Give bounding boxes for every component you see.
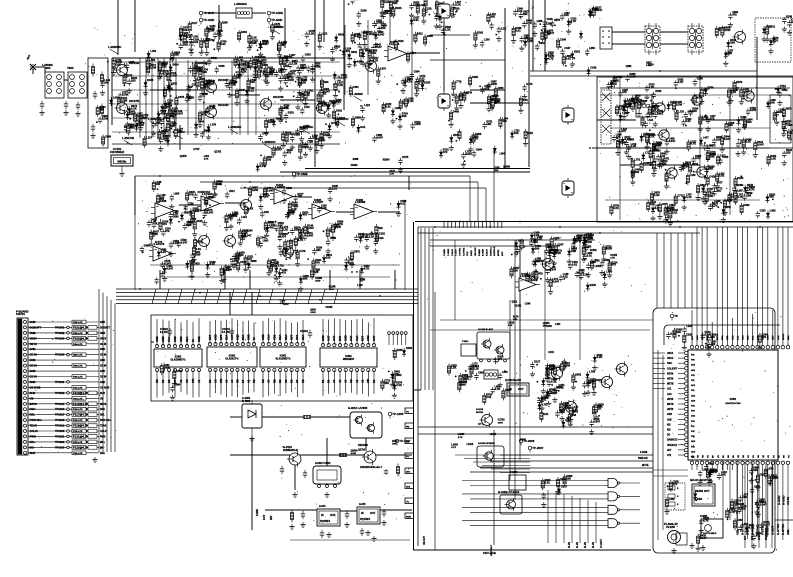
svg-text:2.2K: 2.2K xyxy=(183,43,189,47)
svg-text:PL/099-4P: PL/099-4P xyxy=(664,522,678,526)
transistor Q411 xyxy=(690,93,702,107)
svg-text:MUTE: MUTE xyxy=(783,333,785,340)
svg-text:C102: C102 xyxy=(379,232,386,235)
svg-text:VREV: VREV xyxy=(100,338,107,340)
jack J403 xyxy=(562,178,574,198)
svg-text:CLK: CLK xyxy=(267,335,271,340)
wire long vertical tile2 xyxy=(314,0,316,167)
wire inner left vertical2 xyxy=(662,355,664,530)
svg-text:0.01: 0.01 xyxy=(660,154,666,158)
wire connector bus 2 xyxy=(102,293,104,452)
svg-text:L731: L731 xyxy=(635,159,641,162)
svg-text:2.2K: 2.2K xyxy=(396,383,402,387)
svg-text:TP1302: TP1302 xyxy=(55,331,65,335)
connector row PWR pin 22 xyxy=(28,434,106,438)
svg-text:H-GND: H-GND xyxy=(782,496,786,505)
IC501 microcontroller xyxy=(688,350,778,460)
connector row GND pin 6 xyxy=(28,347,105,351)
RC cluster M6 xyxy=(547,236,613,295)
svg-text:D319: D319 xyxy=(336,110,343,113)
RC cluster D6 xyxy=(279,104,326,153)
wire drop to IC box 5 xyxy=(684,233,686,308)
svg-text:0.01: 0.01 xyxy=(385,104,391,108)
label CRT-PCB xyxy=(483,551,496,555)
RC cluster topE2 xyxy=(480,8,529,48)
svg-text:HSTB: HSTB xyxy=(667,409,674,411)
wire xyxy=(408,176,410,190)
connector row CE IN pin 7 xyxy=(28,353,106,357)
connector row BRTS pin 16 xyxy=(28,402,107,406)
RC cluster top B xyxy=(300,30,352,73)
component box X501 xyxy=(700,516,723,538)
connector row UB pin 15 xyxy=(28,396,104,400)
capacitor C962 xyxy=(345,511,349,519)
wire AFT xyxy=(470,471,653,473)
svg-text:SDA: SDA xyxy=(284,334,288,340)
wire net M ext 0 xyxy=(455,454,530,456)
wire xyxy=(229,292,231,315)
RC cluster H10 xyxy=(632,99,682,150)
svg-text:GND: GND xyxy=(179,336,183,342)
wire xyxy=(367,20,369,95)
svg-text:TP1318: TP1318 xyxy=(55,418,65,422)
svg-text:WR: WR xyxy=(219,379,223,383)
wire xyxy=(179,204,201,206)
ground xyxy=(700,545,705,551)
svg-text:LA2176: LA2176 xyxy=(154,242,165,246)
RC cluster extra I2b xyxy=(205,180,274,208)
svg-text:TP1315: TP1315 xyxy=(55,402,65,406)
svg-text:REL: REL xyxy=(100,415,105,417)
svg-text:R155: R155 xyxy=(397,349,404,352)
svg-text:0.01: 0.01 xyxy=(193,40,199,44)
wire inner trunk M6 xyxy=(430,329,650,331)
svg-text:CE SH/B: CE SH/B xyxy=(30,385,41,389)
svg-text:ABL: ABL xyxy=(786,529,790,535)
svg-text:0.1 25V: 0.1 25V xyxy=(160,332,168,334)
svg-text:TP-CMB: TP-CMB xyxy=(296,172,307,176)
svg-text:CS: CS xyxy=(284,379,288,383)
wire stage2 vertical 3 xyxy=(231,60,233,135)
RC cluster I4 xyxy=(299,221,344,254)
svg-text:CE IN: CE IN xyxy=(30,375,37,379)
svg-text:10K: 10K xyxy=(709,194,714,198)
svg-text:2.2K: 2.2K xyxy=(527,131,533,135)
op-amp IC203 xyxy=(270,183,297,204)
svg-text:RD: RD xyxy=(155,379,159,383)
svg-text:0.01: 0.01 xyxy=(209,81,215,85)
capacitor C010 xyxy=(91,124,95,132)
IC IC903 xyxy=(154,345,202,372)
svg-text:RD: RD xyxy=(252,379,256,383)
wire xyxy=(375,454,412,456)
wire xyxy=(323,0,325,42)
connector row VMB pin 3 xyxy=(28,331,105,335)
svg-text:TP1321: TP1321 xyxy=(55,434,65,438)
transistor Q201 xyxy=(197,234,210,249)
svg-text:RD: RD xyxy=(235,379,239,383)
svg-text:0.01: 0.01 xyxy=(559,385,565,389)
wire bundle right xyxy=(409,150,494,222)
ground xyxy=(289,524,294,530)
RC cluster I6 xyxy=(205,251,257,283)
svg-text:GND: GND xyxy=(30,380,36,384)
svg-text:4.7K: 4.7K xyxy=(298,238,304,242)
wire trunk top A xyxy=(415,221,793,223)
box micro section xyxy=(653,308,775,553)
svg-text:VREV: VREV xyxy=(30,336,38,340)
connector row CE IN pin 9 xyxy=(28,364,106,368)
svg-text:4.7K: 4.7K xyxy=(737,195,743,199)
svg-text:PQ12RF1: PQ12RF1 xyxy=(360,519,371,521)
svg-text:TP-GND: TP-GND xyxy=(203,18,214,22)
svg-text:4.7K: 4.7K xyxy=(526,21,532,25)
svg-text:2.2K: 2.2K xyxy=(309,31,315,35)
wire connector bus 3 xyxy=(106,296,108,452)
svg-text:CV-1255: CV-1255 xyxy=(666,527,676,529)
wire rail bottom xyxy=(112,143,340,145)
wire xyxy=(225,202,246,204)
svg-text:C743: C743 xyxy=(466,91,473,94)
RC cluster extra H6b xyxy=(705,175,766,222)
svg-text:L164: L164 xyxy=(648,119,654,122)
svg-text:C429: C429 xyxy=(378,237,385,240)
svg-text:GND: GND xyxy=(213,334,217,340)
svg-text:0.01: 0.01 xyxy=(523,98,529,102)
svg-text:2.2K: 2.2K xyxy=(652,106,658,110)
svg-text:D286: D286 xyxy=(472,76,479,79)
box jungle section xyxy=(151,315,413,401)
wire xyxy=(294,465,296,490)
RC cluster extra D3 xyxy=(234,55,293,83)
wire xyxy=(532,0,534,71)
svg-text:SDA: SDA xyxy=(746,335,749,340)
svg-text:T002: T002 xyxy=(67,66,74,70)
resistor R961 xyxy=(290,510,293,523)
wire net M ext 5 xyxy=(500,472,530,474)
svg-text:TP1319: TP1319 xyxy=(55,424,65,428)
wire xyxy=(205,12,236,14)
wire F-RGB xyxy=(500,454,653,456)
svg-text:F121@4.7K: F121@4.7K xyxy=(73,434,89,438)
RC cluster N top xyxy=(666,325,693,350)
wire inner trunk M xyxy=(430,239,595,241)
svg-text:0.01: 0.01 xyxy=(515,28,521,32)
svg-text:L720: L720 xyxy=(678,111,684,114)
RC cluster G2 xyxy=(715,11,739,66)
svg-text:RST: RST xyxy=(338,335,342,341)
RC cluster N2 xyxy=(726,467,774,532)
wire inner left vertical xyxy=(657,350,659,540)
svg-text:GND: GND xyxy=(30,358,36,362)
connector row VREV pin 4 xyxy=(28,336,107,340)
svg-text:A0: A0 xyxy=(230,379,234,383)
wire xyxy=(179,125,181,150)
svg-text:0.047: 0.047 xyxy=(376,135,383,139)
svg-text:10K: 10K xyxy=(174,53,179,57)
svg-text:TP-CWB: TP-CWB xyxy=(271,11,283,15)
connector row TEAR pin 20 xyxy=(28,424,107,428)
svg-text:L.00KUB: L.00KUB xyxy=(122,136,134,140)
capacitor C004 xyxy=(63,101,68,116)
transistor Q102 xyxy=(115,100,141,116)
svg-text:470: 470 xyxy=(282,234,287,238)
wire vertical feed 2 xyxy=(134,0,136,52)
RC cluster extra D2 xyxy=(298,72,348,107)
resistor R953 xyxy=(396,464,399,477)
svg-text:0.047: 0.047 xyxy=(384,0,391,4)
wire bus row 4 xyxy=(116,299,418,301)
wire xyxy=(336,211,354,213)
svg-text:A0: A0 xyxy=(267,379,271,383)
RC cluster IF stage2 xyxy=(185,57,252,140)
net stub labels left edge xyxy=(405,408,414,519)
svg-text:1/2W: 1/2W xyxy=(527,39,534,43)
svg-text:A1: A1 xyxy=(246,379,250,383)
wire drop to bus xyxy=(159,270,161,289)
svg-text:C464: C464 xyxy=(353,86,360,89)
svg-text:L959: L959 xyxy=(770,210,776,213)
wire long left bundle 3 xyxy=(519,246,521,460)
svg-text:UB: UB xyxy=(30,396,34,400)
svg-text:CS: CS xyxy=(213,379,217,383)
wire chroma rail xyxy=(600,94,790,96)
op-amp IC604 xyxy=(515,272,540,291)
wire xyxy=(544,0,546,71)
wire trunk I-a xyxy=(135,175,409,177)
connector row GND pin 8 xyxy=(28,358,105,362)
svg-text:RST: RST xyxy=(290,334,294,340)
svg-text:470: 470 xyxy=(394,372,399,376)
labels bottom pins右 xyxy=(743,528,768,540)
svg-text:1/2W: 1/2W xyxy=(164,365,171,369)
svg-text:C148: C148 xyxy=(560,39,567,42)
wires IC902 bottom pins xyxy=(208,370,256,397)
svg-text:C554: C554 xyxy=(286,56,293,59)
svg-text:TP1313: TP1313 xyxy=(55,391,65,395)
RC cluster H3 xyxy=(612,133,661,166)
svg-text:470: 470 xyxy=(302,213,307,217)
diode block D860 label xyxy=(242,397,251,403)
svg-text:10K: 10K xyxy=(324,80,329,84)
RC cluster G3 xyxy=(762,15,793,54)
jack J402 xyxy=(562,105,574,125)
transistor Q301 xyxy=(364,59,377,74)
wire net M ext 1 xyxy=(464,458,530,460)
svg-text:0.01: 0.01 xyxy=(220,42,226,46)
wire stage rail 4 xyxy=(112,117,340,119)
wire drop to bus xyxy=(329,270,331,289)
svg-text:AT1: AT1 xyxy=(667,454,672,457)
svg-text:D268: D268 xyxy=(737,177,744,180)
RC cluster I9 xyxy=(140,209,252,284)
svg-text:RST: RST xyxy=(295,334,299,340)
transistor Q412 xyxy=(742,89,754,103)
RC cluster H9 xyxy=(699,86,785,203)
RC cluster A3 xyxy=(96,105,138,147)
svg-text:TP-GND: TP-GND xyxy=(271,18,282,22)
svg-text:SDA: SDA xyxy=(224,334,228,340)
svg-text:10K: 10K xyxy=(384,381,389,385)
svg-text:CS: CS xyxy=(185,379,189,383)
svg-text:L824: L824 xyxy=(229,190,235,193)
svg-text:A0: A0 xyxy=(344,379,348,383)
wire vertical from D860 xyxy=(251,436,253,530)
svg-text:SCL: SCL xyxy=(753,335,755,340)
shield box xyxy=(88,58,108,148)
svg-text:TP1303: TP1303 xyxy=(55,336,65,340)
wire xyxy=(411,25,413,100)
wire jack chain xyxy=(443,21,445,91)
svg-text:L988: L988 xyxy=(537,20,543,23)
wire trunk top B xyxy=(418,226,793,228)
svg-text:F115@4.7K: F115@4.7K xyxy=(73,402,89,406)
wire inner corner xyxy=(664,325,780,345)
svg-text:KEY: KEY xyxy=(773,335,775,340)
RC cluster H5 xyxy=(647,173,707,223)
svg-text:L530: L530 xyxy=(737,519,743,522)
svg-text:10K: 10K xyxy=(264,210,269,214)
svg-text:OSC: OSC xyxy=(768,335,770,340)
svg-text:GLASSCP-1: GLASSCP-1 xyxy=(225,358,239,361)
svg-text:C779: C779 xyxy=(455,81,462,84)
svg-text:4.7K: 4.7K xyxy=(495,387,501,391)
IF transformer T402 xyxy=(688,23,703,55)
wire stage2 vertical 2 xyxy=(203,60,205,135)
IF transformer T401 xyxy=(645,23,660,55)
capacitor C963 xyxy=(382,509,386,517)
svg-text:470: 470 xyxy=(161,112,166,116)
wire xyxy=(620,164,700,166)
RC cluster I3 xyxy=(259,210,309,256)
wire gate drop 7 xyxy=(595,502,597,543)
svg-text:2.2K: 2.2K xyxy=(455,2,461,6)
svg-text:V-OUT: V-OUT xyxy=(599,539,603,548)
svg-text:470: 470 xyxy=(502,119,507,123)
svg-text:R881: R881 xyxy=(459,94,466,97)
svg-text:0.047: 0.047 xyxy=(378,32,385,36)
wire stage rail 5 xyxy=(112,131,340,133)
svg-text:0.047: 0.047 xyxy=(181,240,188,244)
svg-text:470: 470 xyxy=(315,261,320,265)
svg-text:D0: D0 xyxy=(241,379,245,383)
wire chroma vert2 xyxy=(699,77,701,170)
transformer T001 xyxy=(42,63,64,98)
RC cluster N2b xyxy=(693,463,770,534)
RC cluster extra H1b xyxy=(622,95,659,120)
RC cluster I5 xyxy=(354,224,385,254)
RC cluster D5 xyxy=(256,141,314,173)
RC cluster H7 xyxy=(766,99,793,137)
svg-text:470: 470 xyxy=(538,272,543,276)
svg-text:D-5V: D-5V xyxy=(264,514,266,520)
RC cluster C4 xyxy=(227,68,308,111)
svg-text:R526: R526 xyxy=(655,90,662,93)
svg-text:470: 470 xyxy=(278,70,283,74)
IC501 inner bottom labels xyxy=(693,454,791,458)
svg-text:DAI/HCCI: DAI/HCCI xyxy=(667,439,678,442)
wire long vertical tile2b xyxy=(343,0,345,110)
wire xyxy=(298,196,312,198)
svg-text:L.0060NH: L.0060NH xyxy=(228,125,241,129)
svg-text:SCREEN: SCREEN xyxy=(764,528,768,540)
svg-text:D5V: D5V xyxy=(271,515,273,520)
connector row SHB pin 14 xyxy=(28,391,105,395)
RC cluster H3c xyxy=(630,138,676,189)
svg-text:2SC1761: 2SC1761 xyxy=(129,100,140,103)
svg-text:D0: D0 xyxy=(295,379,299,383)
RC cluster M1 xyxy=(530,359,603,412)
svg-text:L378: L378 xyxy=(210,123,216,126)
RC cluster M5 xyxy=(541,474,573,507)
svg-text:2SC1067: 2SC1067 xyxy=(218,79,229,82)
svg-text:G-OUT: G-OUT xyxy=(771,525,775,535)
RC cluster extra M2b xyxy=(540,403,605,435)
svg-text:100: 100 xyxy=(566,477,571,481)
svg-text:2SD/MARK+B+7: 2SD/MARK+B+7 xyxy=(360,465,383,469)
RC cluster extra I6b xyxy=(269,246,322,281)
svg-text:TP1316: TP1316 xyxy=(55,407,65,411)
svg-text:RCH: RCH xyxy=(30,407,36,411)
connector row CE SH/B pin 13 xyxy=(28,385,110,389)
svg-text:D1: D1 xyxy=(161,379,165,383)
capacitor C906 xyxy=(222,327,234,336)
svg-text:C875: C875 xyxy=(561,486,568,489)
wire bus row 5 xyxy=(116,302,418,304)
svg-text:ASB: ASB xyxy=(667,413,672,416)
svg-text:10K: 10K xyxy=(721,473,726,477)
wire xyxy=(160,276,390,278)
svg-text:RST: RST xyxy=(361,335,365,341)
svg-text:100: 100 xyxy=(131,79,136,83)
connector row GND pin 12 xyxy=(28,380,105,384)
transistor Q602 xyxy=(563,399,576,414)
wire xyxy=(326,438,328,466)
svg-text:4.7K: 4.7K xyxy=(263,194,269,198)
svg-text:2.2K: 2.2K xyxy=(631,144,637,148)
svg-text:C189: C189 xyxy=(686,334,693,337)
crystal X201 label xyxy=(110,147,125,154)
wire inner trunk M2 xyxy=(430,245,560,247)
wire gate input b xyxy=(470,485,605,487)
wire xyxy=(470,89,505,91)
svg-text:AFT: AFT xyxy=(667,449,672,452)
svg-text:470: 470 xyxy=(716,189,721,193)
svg-text:L.0060OO: L.0060OO xyxy=(262,140,276,144)
svg-text:DC/BATT: DC/BATT xyxy=(100,326,111,329)
RC cluster H7b xyxy=(704,129,793,174)
svg-text:IC801: IC801 xyxy=(345,355,352,358)
wire bus row 3 xyxy=(116,295,418,297)
wire long horizontal F4 xyxy=(280,171,530,173)
testpoint TP003 xyxy=(267,11,283,18)
svg-text:TP-2007: TP-2007 xyxy=(532,446,543,450)
wire xyxy=(44,67,46,74)
RC cluster N4 xyxy=(701,331,768,357)
svg-text:DC/BATT: DC/BATT xyxy=(30,325,42,329)
svg-text:D1: D1 xyxy=(321,379,325,383)
sawfilter SF401 xyxy=(600,27,612,49)
svg-text:MUTE: MUTE xyxy=(717,333,719,340)
ground xyxy=(671,548,676,554)
RC cluster H11 xyxy=(702,142,753,215)
svg-text:L769: L769 xyxy=(589,371,595,374)
svg-text:GND: GND xyxy=(30,369,36,373)
svg-text:0.01: 0.01 xyxy=(572,262,578,266)
RC cluster extra H5b xyxy=(630,156,698,185)
module box B+ADJ xyxy=(477,328,510,362)
op-amp IC206 xyxy=(149,240,176,261)
